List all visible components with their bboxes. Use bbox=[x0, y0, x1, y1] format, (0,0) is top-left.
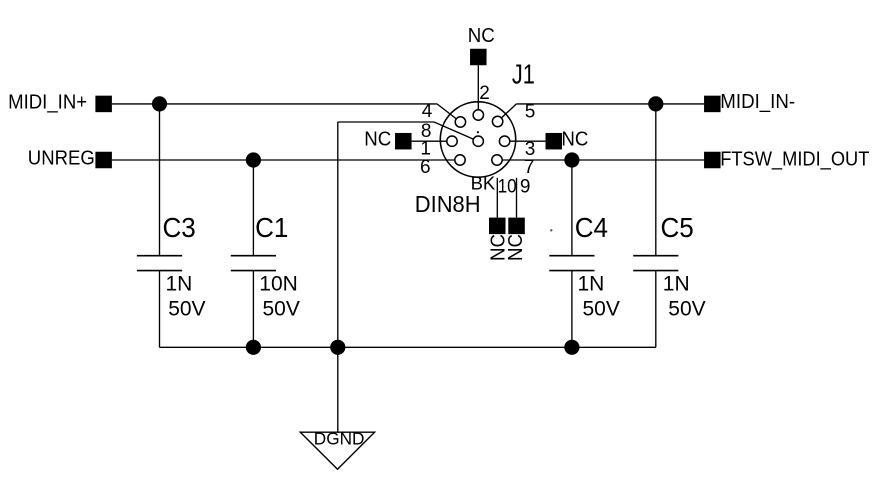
terminal square NC pin 2 bbox=[470, 49, 487, 66]
svg-text:J1: J1 bbox=[512, 58, 535, 89]
terminal square MIDI_IN+ bbox=[95, 96, 112, 113]
terminal square MIDI_IN- bbox=[704, 96, 721, 113]
svg-text:50V: 50V bbox=[168, 297, 205, 320]
svg-text:DIN8H: DIN8H bbox=[415, 191, 481, 217]
svg-text:50V: 50V bbox=[263, 297, 300, 320]
wire NC stub to pin 2 bbox=[477, 65, 479, 115]
svg-text:4: 4 bbox=[422, 101, 433, 122]
pin 1 circle bbox=[447, 136, 457, 146]
svg-text:UNREG: UNREG bbox=[28, 147, 95, 170]
pin 4 circle bbox=[455, 117, 465, 127]
svg-text:BK: BK bbox=[471, 172, 496, 193]
svg-text:10: 10 bbox=[498, 176, 517, 197]
wire C4 bottom riser bbox=[571, 271, 573, 348]
junction MIDI_IN- / C5 bbox=[648, 96, 663, 111]
wire pin 9 stub bbox=[516, 178, 518, 218]
terminal square NC pin 10 bbox=[489, 218, 506, 235]
wire pin 8 net vertical riser bbox=[337, 122, 339, 347]
svg-text:FTSW_MIDI_OUT: FTSW_MIDI_OUT bbox=[720, 148, 870, 171]
wire pin 3 stub to NC bbox=[510, 140, 546, 142]
junction rail / C1 bbox=[246, 340, 261, 355]
svg-text:MIDI_IN-: MIDI_IN- bbox=[720, 90, 795, 113]
pin 6 circle bbox=[455, 155, 465, 165]
svg-text:2: 2 bbox=[479, 83, 490, 104]
junction UNREG / C1 bbox=[246, 152, 261, 167]
wire pin 8 net horizontal bbox=[338, 121, 434, 123]
wire pin 8 diagonal to center pin bbox=[434, 122, 478, 141]
svg-text:7: 7 bbox=[524, 157, 535, 178]
capacitor C5 plates bbox=[633, 255, 678, 257]
wire net MIDI_IN- horizontal bbox=[516, 103, 704, 105]
wire ground rail bbox=[160, 346, 656, 348]
svg-text:C3: C3 bbox=[163, 212, 196, 243]
pin 5 circle bbox=[492, 116, 502, 126]
wire net UNREG horizontal to pin 6 bbox=[112, 159, 455, 161]
connector J1 body circle bbox=[440, 102, 515, 177]
svg-text:MIDI_IN+: MIDI_IN+ bbox=[8, 90, 87, 113]
svg-text:9: 9 bbox=[520, 176, 531, 197]
wire C5 bottom riser bbox=[655, 271, 657, 348]
wire C3 top riser bbox=[159, 104, 161, 256]
svg-text:50V: 50V bbox=[668, 297, 705, 320]
terminal square NC pin 3 bbox=[546, 133, 563, 150]
pin 2 circle bbox=[473, 110, 483, 120]
stray ink dot bbox=[550, 229, 552, 231]
ground symbol DGND triangle bbox=[300, 432, 374, 469]
wire NC stub to pin 1 bbox=[412, 140, 447, 142]
connector J1 orientation dot bbox=[477, 131, 479, 133]
svg-text:C4: C4 bbox=[575, 212, 608, 243]
junction rail / C4 bbox=[564, 340, 579, 355]
terminal square UNREG bbox=[95, 152, 112, 169]
junction MIDI_IN+ / C3 bbox=[152, 96, 167, 111]
pin 8 center circle bbox=[473, 136, 483, 146]
svg-text:50V: 50V bbox=[583, 297, 620, 320]
junction FTSW_MIDI_OUT / C4 bbox=[564, 152, 579, 167]
wire C4 top riser bbox=[571, 160, 573, 256]
wire net FTSW_MIDI_OUT horizontal bbox=[502, 159, 704, 161]
svg-text:NC: NC bbox=[364, 127, 391, 150]
svg-text:10N: 10N bbox=[259, 273, 298, 296]
wire DGND stem bbox=[337, 347, 339, 432]
terminal square NC pin 1 bbox=[395, 133, 412, 150]
wire MIDI_IN+ diagonal to pin 4 bbox=[437, 104, 460, 122]
wire C1 bottom riser bbox=[252, 271, 254, 348]
capacitor C1 plates bbox=[231, 255, 276, 257]
wire pin 5 diagonal bbox=[498, 104, 517, 122]
capacitor C3 plates bbox=[137, 255, 182, 257]
wire C3 bottom riser bbox=[159, 271, 161, 348]
svg-text:1N: 1N bbox=[166, 273, 193, 296]
svg-text:NC: NC bbox=[504, 234, 527, 261]
svg-text:NC: NC bbox=[468, 24, 495, 47]
pin 7 circle bbox=[492, 155, 502, 165]
wire C5 top riser bbox=[655, 104, 657, 256]
svg-text:1N: 1N bbox=[663, 273, 690, 296]
wire C1 top riser bbox=[252, 160, 254, 256]
terminal square NC pin 9 bbox=[508, 218, 525, 235]
svg-text:C5: C5 bbox=[661, 212, 694, 243]
pin 3 circle bbox=[499, 136, 509, 146]
svg-text:DGND: DGND bbox=[314, 428, 365, 448]
svg-text:1N: 1N bbox=[578, 273, 605, 296]
terminal square FTSW_MIDI_OUT bbox=[704, 152, 721, 169]
svg-text:NC: NC bbox=[561, 127, 588, 150]
wire pin 10 stub bbox=[496, 178, 498, 218]
junction rail / DGND bbox=[330, 340, 345, 355]
capacitor C4 plates bbox=[549, 255, 594, 257]
svg-text:6: 6 bbox=[420, 157, 431, 178]
svg-text:5: 5 bbox=[525, 101, 536, 122]
wire net MIDI_IN+ horizontal bbox=[112, 103, 437, 105]
svg-text:C1: C1 bbox=[255, 212, 288, 243]
